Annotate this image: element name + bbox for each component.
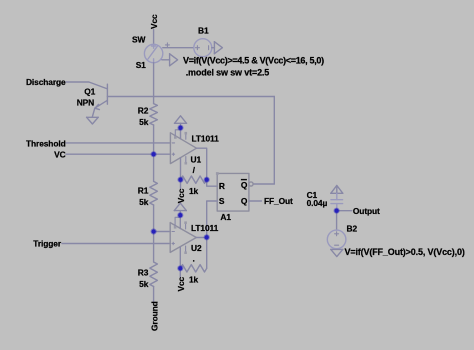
svg-text:R1: R1 [138, 186, 149, 196]
U1 top power pin [180, 128, 182, 139]
svg-text:LT1011: LT1011 [191, 223, 219, 233]
svg-text:FF_Out: FF_Out [264, 196, 293, 206]
svg-text:Output: Output [353, 206, 380, 216]
U2 top power pin [179, 215, 181, 228]
resistor 1k (U2 pull-up) [180, 265, 206, 272]
wire B1 minus to ground [212, 47, 215, 49]
wire Q output FF_Out [249, 200, 262, 202]
wire trigger node to U2 input [154, 231, 171, 233]
resistor 1k (U1 pull-up) [181, 176, 207, 183]
plus mark S1 control [165, 43, 169, 47]
U2 input marks [172, 232, 174, 245]
svg-text:S: S [219, 196, 225, 206]
wire S1 bottom to R2 [153, 63, 155, 104]
U1 input marks [172, 143, 174, 156]
op-amp U2 (LT1011) [170, 223, 196, 253]
switch S1 [144, 44, 162, 62]
svg-text:B2: B2 [347, 224, 358, 234]
U2 bottom power pin [179, 247, 181, 268]
U1 balance stub [185, 132, 188, 139]
svg-text:LT1011: LT1011 [192, 133, 220, 143]
bv source B2 [327, 230, 346, 249]
wire S1 control- to ground [162, 59, 170, 61]
Qbar bubble [249, 182, 253, 186]
ground flag right (S1) [169, 54, 171, 66]
svg-text:A1: A1 [220, 212, 231, 222]
wire Threshold [66, 142, 170, 144]
svg-text:Vcc: Vcc [176, 188, 186, 203]
svg-text:Vcc: Vcc [149, 14, 159, 29]
ground flag up (C1) [336, 186, 338, 193]
wire U2 Vcc label stub [179, 268, 181, 277]
plus mark B1 [195, 46, 208, 50]
capacitor C1 [331, 193, 343, 210]
wire VC node to R1 [153, 154, 155, 181]
wire VC [66, 153, 170, 155]
U2 strobe hook [174, 217, 181, 228]
svg-text:5k: 5k [139, 197, 149, 207]
bv source B1 [194, 39, 212, 57]
svg-text:R2: R2 [138, 106, 149, 116]
ground flag down (B2) [331, 248, 343, 250]
resistor R2 [150, 104, 158, 125]
wire Trigger [62, 243, 170, 245]
svg-text:1k: 1k [189, 274, 199, 284]
ground flag right (B1) [213, 42, 215, 54]
resistor R1 [150, 181, 158, 205]
svg-text:1k: 1k [189, 186, 199, 196]
svg-text:U2: U2 [191, 243, 202, 253]
svg-text:V=if(V(FF_Out)>0.5, V(Vcc),0): V=if(V(FF_Out)>0.5, V(Vcc),0) [345, 247, 465, 257]
flip-flop A1 box [216, 172, 249, 211]
wire R2 to VC node [153, 125, 155, 154]
U2 bottom stub [184, 246, 187, 254]
U2 balance stub [184, 221, 187, 229]
svg-text:0.04µ: 0.04µ [307, 198, 328, 208]
wire R1 to trigger node [153, 205, 155, 232]
svg-text:R3: R3 [138, 267, 149, 277]
svg-text:SW: SW [132, 34, 145, 44]
ground flag (Q1) [87, 116, 99, 118]
wire Discharge [66, 82, 107, 89]
wire S1 to B1 (control+) [163, 47, 194, 49]
svg-text:.model sw sw vt=2.5: .model sw sw vt=2.5 [186, 68, 270, 78]
resistor R3 [150, 262, 158, 287]
wire R3 to Ground label [153, 287, 155, 303]
svg-text:Q1: Q1 [84, 86, 95, 96]
svg-text:NPN: NPN [77, 98, 94, 108]
svg-text:V=if(V(Vcc)>=4.5 & V(Vcc)<=16,: V=if(V(Vcc)>=4.5 & V(Vcc)<=16, 5,0) [183, 56, 324, 66]
svg-text:Q: Q [241, 180, 248, 190]
wire trigger node to R3 [153, 232, 155, 263]
svg-text:Q: Q [241, 196, 248, 206]
wire Output [337, 210, 352, 212]
svg-text:5k: 5k [139, 279, 149, 289]
svg-text:Ground: Ground [149, 301, 159, 331]
svg-text:.: . [193, 254, 195, 264]
wire S input [207, 201, 218, 268]
wire U1 Vcc label stub [180, 180, 182, 189]
overbar [241, 179, 247, 180]
svg-text:Discharge: Discharge [26, 77, 66, 87]
transistor Q1 [106, 84, 108, 104]
svg-text:R: R [219, 181, 225, 191]
svg-text:B1: B1 [198, 26, 209, 36]
junction dots [151, 125, 340, 272]
wire Vcc to S1 top [153, 30, 155, 45]
svg-text:Threshold: Threshold [26, 138, 66, 148]
wire U1 output [197, 148, 218, 186]
svg-text:S1: S1 [136, 60, 146, 70]
wire Qbar net (Q1 base to flip-flop) [107, 96, 274, 98]
wire U2 output [196, 237, 206, 239]
svg-text:Trigger: Trigger [33, 238, 62, 248]
wire output node to B2 [336, 211, 338, 230]
svg-text:5k: 5k [139, 117, 149, 127]
ground flag up (U2) [179, 211, 181, 216]
ground flag up (U1) [180, 123, 182, 128]
svg-text:VC: VC [54, 150, 65, 160]
U1 bottom power pin [180, 158, 182, 180]
U1 bottom stub [185, 157, 188, 165]
U1 strobe hook [174, 130, 181, 139]
op-amp U1 (LT1011) [170, 133, 196, 164]
arrow Q1 emitter [95, 104, 100, 109]
svg-text:Vcc: Vcc [176, 276, 186, 291]
svg-text:U1: U1 [191, 155, 202, 165]
plus mark B2 [335, 232, 339, 245]
